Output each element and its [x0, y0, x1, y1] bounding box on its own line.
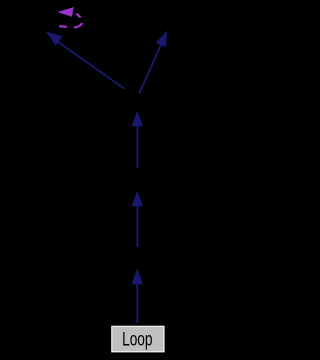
edge D arrowhead: [46, 31, 63, 46]
edge B arrowhead: [132, 191, 143, 207]
purple dashed template edge: dash 3: [76, 14, 80, 18]
wire edge D shaft (junction to upper-left node): [58, 42, 125, 89]
node Loop box: [112, 326, 164, 352]
wire edge C shaft (Loop up to node1): [136, 281, 138, 323]
edge E arrowhead: [156, 30, 168, 47]
edge C arrowhead: [132, 268, 143, 284]
purple dashed template edge: dash 1: [59, 25, 67, 28]
purple dashed template edge: dash 2 (arc): [74, 23, 82, 28]
edge A arrowhead: [132, 111, 143, 127]
wire edge A shaft (node2 up to junction node): [136, 123, 138, 168]
purple dashed edge arrowhead: [57, 7, 74, 17]
wire edge E shaft (junction to upper-right node): [139, 43, 162, 94]
svg-text:Loop: Loop: [122, 329, 152, 350]
wire edge B shaft (node1 up to node2): [136, 203, 138, 247]
